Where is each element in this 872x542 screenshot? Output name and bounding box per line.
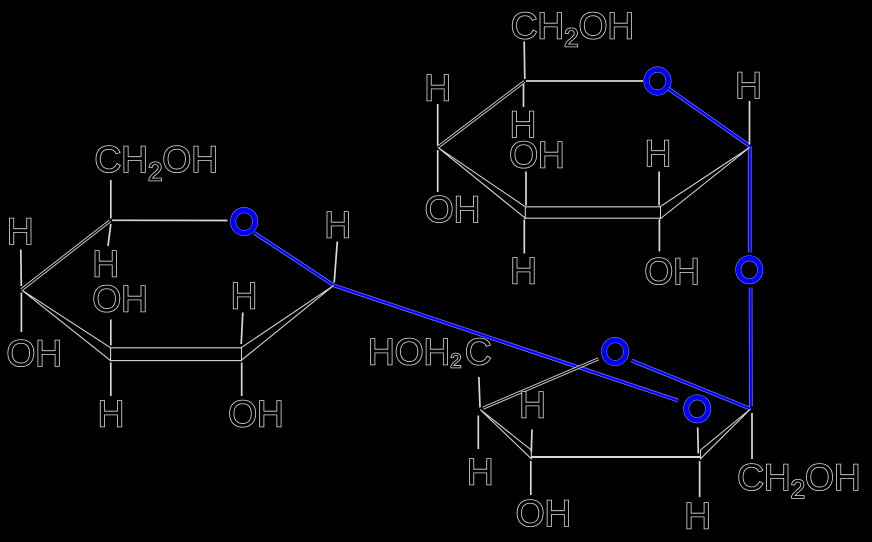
bond O2-C3 fructose: [697, 428, 700, 454]
bond C4-OH fructose: [530, 461, 532, 495]
bond C4-C5 ring2: [21, 221, 110, 290]
svg-text:H: H: [467, 451, 494, 492]
bond C5-H inner ring1: [523, 84, 525, 107]
wedge C4-C3 ring1: [438, 147, 526, 218]
svg-text:OH: OH: [92, 279, 147, 320]
bond H-C1: [749, 101, 751, 145]
O2 glycosidic (blue): [686, 397, 708, 420]
bond C3-H below fructose: [699, 461, 701, 497]
bond C2-OH below ring2: [241, 363, 243, 397]
wedge C4-C3 ring2: [21, 290, 110, 361]
bond OH-C3 inner ring2: [110, 320, 112, 346]
svg-text:H: H: [519, 385, 546, 426]
bond H-C4 ring2: [20, 250, 23, 287]
blue bond C1(ring2)-O2 long: [334, 285, 679, 400]
svg-text:OH: OH: [425, 189, 481, 230]
svg-text:H: H: [645, 133, 672, 174]
svg-text:H: H: [735, 65, 762, 106]
bond C6-C5: [523, 42, 526, 80]
O ring1 (blue): [647, 70, 669, 93]
wedge C1-C2 ring1: [660, 148, 750, 220]
thick bond C3-C2 ring1: [525, 207, 661, 218]
svg-text:OH: OH: [509, 134, 565, 175]
svg-text:OH: OH: [7, 333, 63, 374]
O ring2 (blue): [233, 210, 255, 233]
svg-text:H: H: [510, 251, 537, 292]
wedge C1-C2 ring2: [241, 285, 334, 360]
blue bond O(ring1)-C1: [668, 89, 749, 146]
svg-text:H: H: [7, 211, 34, 252]
svg-text:H: H: [684, 496, 711, 537]
blue bond C1-O1: [748, 146, 752, 252]
blue bond O(ring3)-C2: [632, 361, 750, 409]
bond OH-C3 inner ring1: [525, 172, 527, 206]
svg-text:OH: OH: [644, 251, 700, 292]
bond C4-OH ring2: [20, 293, 22, 333]
bond C3-H below ring2: [110, 363, 112, 397]
bond H-C1 ring2: [334, 242, 337, 283]
bond C4-OH ring1: [437, 150, 439, 192]
svg-text:H: H: [424, 68, 451, 109]
bond H-C2 inner ring2: [241, 313, 243, 345]
bond C5-O(ring1): [526, 80, 643, 82]
thick bond C3-C2 ring2: [110, 348, 241, 361]
bond C6-C5 fructose: [479, 377, 480, 408]
bond H-C4 inner fructose: [530, 430, 533, 453]
bond C4-C3 front fructose: [531, 456, 700, 458]
bond H-C2 inner ring1: [658, 172, 660, 206]
bond C3-H below ring1: [523, 220, 525, 254]
bond C4-C5 ring1: [438, 82, 525, 148]
svg-text:H: H: [231, 275, 258, 316]
bond H-C4 ring1: [437, 104, 439, 145]
blue bond O(ring2)-C1: [255, 233, 334, 285]
bond C2-CH2OH fructose: [751, 413, 753, 459]
O ring3 (blue): [604, 340, 626, 363]
bond C5-H fructose: [477, 416, 479, 450]
wedge C5-C4 fructose: [480, 410, 531, 459]
bond C5-H inner ring2: [108, 224, 111, 246]
svg-text:HOH2C: HOH2C: [368, 332, 492, 373]
bond C5-O(ring3): [483, 359, 599, 408]
bond C6-C5 ring2: [110, 180, 112, 219]
blue bond O1-C2(fructose): [749, 288, 753, 407]
svg-text:H: H: [98, 394, 125, 435]
bond C2-OH below ring1: [658, 220, 660, 252]
svg-text:OH: OH: [516, 493, 572, 534]
O1 glycosidic (blue): [738, 258, 760, 281]
bond C5-O ring2: [112, 219, 228, 221]
wedge C2-C3 fructose: [701, 409, 751, 459]
svg-text:OH: OH: [228, 394, 284, 435]
svg-text:H: H: [324, 205, 351, 246]
